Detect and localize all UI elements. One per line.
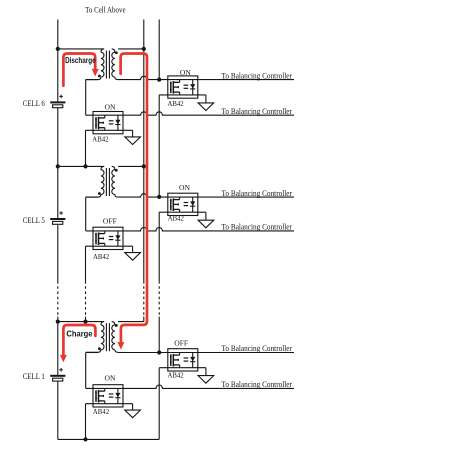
svg-text:To Balancing Controller: To Balancing Controller [222, 223, 293, 232]
svg-text:OFF: OFF [103, 217, 117, 226]
svg-text:To Balancing Controller: To Balancing Controller [222, 71, 293, 80]
svg-text:Charge: Charge [66, 329, 93, 338]
svg-text:AB42: AB42 [168, 213, 184, 222]
svg-text:To Balancing Controller: To Balancing Controller [222, 380, 293, 389]
svg-text:AB42: AB42 [168, 371, 184, 380]
svg-text:CELL 6: CELL 6 [23, 99, 45, 108]
svg-text:CELL 1: CELL 1 [23, 372, 45, 381]
svg-text:AB42: AB42 [92, 135, 108, 144]
svg-text:To Balancing Controller: To Balancing Controller [222, 107, 293, 116]
svg-text:AB42: AB42 [93, 252, 109, 261]
svg-text:AB42: AB42 [93, 407, 109, 416]
svg-text:To Balancing Controller: To Balancing Controller [222, 344, 293, 353]
svg-text:AB42: AB42 [168, 99, 184, 108]
svg-text:Discharge: Discharge [65, 56, 96, 65]
svg-text:OFF: OFF [174, 339, 188, 348]
svg-text:ON: ON [179, 183, 190, 192]
svg-text:ON: ON [105, 103, 116, 112]
svg-text:To Cell Above: To Cell Above [85, 5, 126, 14]
svg-text:ON: ON [105, 374, 116, 383]
svg-text:ON: ON [180, 68, 191, 77]
svg-text:CELL 5: CELL 5 [23, 216, 45, 225]
svg-text:To Balancing Controller: To Balancing Controller [222, 189, 293, 198]
